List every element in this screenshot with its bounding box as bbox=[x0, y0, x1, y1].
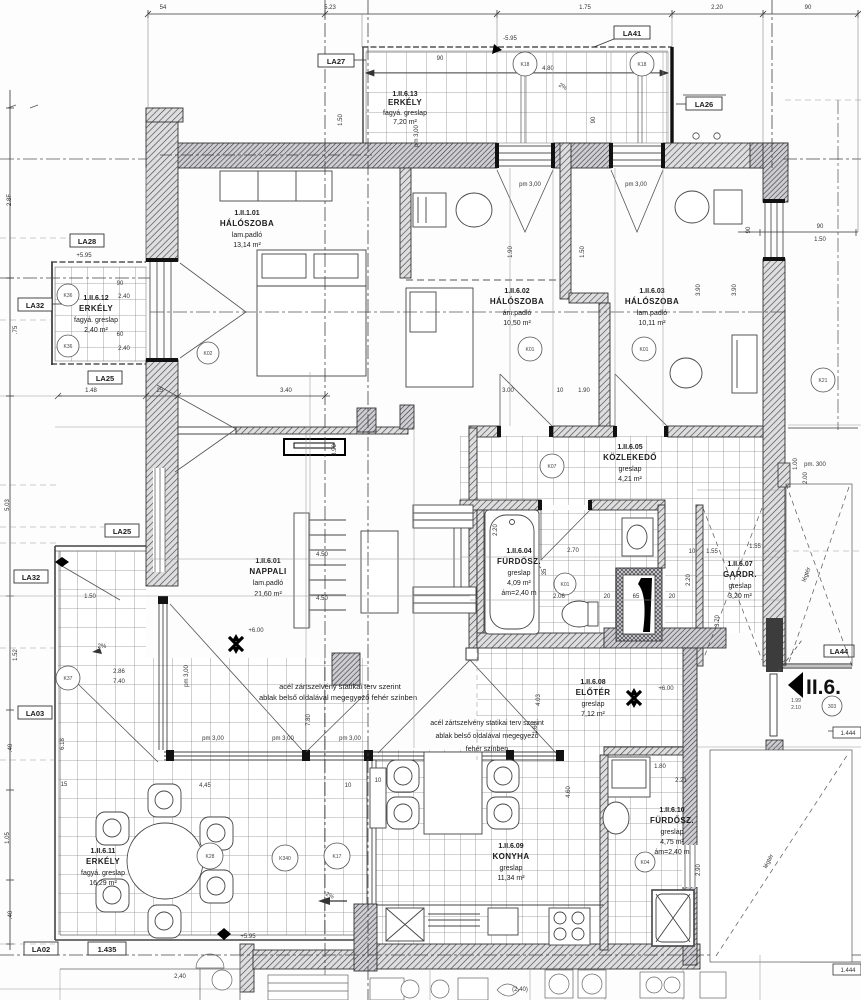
svg-text:LA32: LA32 bbox=[22, 573, 40, 582]
top-left wall tiny circles bbox=[693, 133, 699, 139]
bath10 west wall bbox=[600, 755, 608, 950]
svg-text:K01: K01 bbox=[526, 347, 535, 353]
svg-text:4,21 m²: 4,21 m² bbox=[618, 476, 642, 483]
svg-text:2.90: 2.90 bbox=[696, 864, 702, 876]
K circle bedroom3 bbox=[632, 337, 656, 361]
K circles erkely12 bbox=[57, 284, 79, 306]
svg-text:1.50: 1.50 bbox=[814, 237, 826, 243]
svg-text:FÜRDŐSZ.: FÜRDŐSZ. bbox=[650, 816, 694, 825]
dashed opening bedroom1/2 bbox=[406, 279, 560, 281]
svg-text:90: 90 bbox=[817, 224, 824, 230]
svg-text:pm. 300: pm. 300 bbox=[804, 462, 826, 468]
svg-text:1.60: 1.60 bbox=[533, 722, 539, 734]
svg-text:LA27: LA27 bbox=[327, 57, 345, 66]
svg-text:1.52: 1.52 bbox=[13, 649, 19, 661]
svg-text:1.II.6.09: 1.II.6.09 bbox=[498, 843, 523, 850]
kitchen shelves bbox=[428, 914, 480, 926]
door jamb posts bbox=[146, 143, 785, 510]
interior wall bedroom2/bedroom3 lower bbox=[599, 303, 610, 427]
bedroom1 door swing bbox=[157, 385, 236, 472]
svg-text:lam.padló: lam.padló bbox=[637, 310, 667, 317]
svg-text:K04: K04 bbox=[641, 860, 650, 866]
svg-text:NAPPALI: NAPPALI bbox=[249, 567, 286, 576]
svg-text:10,11 m²: 10,11 m² bbox=[638, 320, 666, 327]
svg-text:2,40 m²: 2,40 m² bbox=[84, 327, 108, 334]
window left wall (balcony door 12) bbox=[150, 261, 171, 360]
1.444 right edge top bbox=[828, 730, 861, 732]
bedroom1 bed bbox=[257, 250, 366, 376]
corridor door diag bbox=[484, 516, 541, 568]
corridor south wall bbox=[460, 500, 541, 510]
svg-text:1.90: 1.90 bbox=[578, 388, 590, 394]
bedroom3 chair2 bbox=[670, 358, 702, 388]
svg-text:1.75: 1.75 bbox=[579, 5, 591, 11]
svg-text:2.86: 2.86 bbox=[113, 669, 125, 675]
bathroom04 toilet bbox=[562, 601, 596, 627]
svg-text:LA25: LA25 bbox=[113, 527, 131, 536]
black diamond balcony top bbox=[55, 557, 69, 567]
nappali sideboard bbox=[284, 439, 345, 455]
svg-text:+6.00: +6.00 bbox=[248, 628, 264, 634]
K circle balcony-arm bbox=[56, 666, 80, 690]
svg-text:FÜRDŐSZ.: FÜRDŐSZ. bbox=[497, 557, 541, 566]
extension lines top bbox=[148, 14, 858, 232]
svg-text:pm 3,00: pm 3,00 bbox=[519, 182, 541, 188]
tiled floor: corridor KOZLEKEDO + GARDR bbox=[460, 436, 763, 505]
svg-text:LA02: LA02 bbox=[32, 945, 50, 954]
K circle bedroom2 bbox=[518, 337, 542, 361]
svg-text:2,40: 2,40 bbox=[174, 974, 186, 980]
K18 circle 2 bbox=[630, 52, 654, 76]
svg-text:2.40: 2.40 bbox=[118, 346, 130, 352]
svg-text:K01: K01 bbox=[640, 347, 649, 353]
svg-text:1.05: 1.05 bbox=[5, 832, 11, 844]
nappali sofa bbox=[361, 531, 398, 613]
exterior left wall upper bbox=[146, 108, 178, 261]
svg-text:ablak belső oldalával megegyez: ablak belső oldalával megegyező bbox=[435, 733, 538, 740]
tiled floor: bathroom 10 bbox=[608, 755, 683, 944]
legter lower shaft bbox=[710, 750, 852, 962]
dark junction kitchen east wall bbox=[597, 944, 611, 969]
nappali shelf-ladder bbox=[294, 513, 309, 628]
bedroom2 bed bbox=[406, 288, 473, 387]
svg-text:1.80: 1.80 bbox=[654, 764, 666, 770]
svg-text:4.03: 4.03 bbox=[536, 694, 542, 706]
svg-text:acél zártszelvény statikai ter: acél zártszelvény statikai terv szerint bbox=[430, 720, 544, 727]
pillar at nappali NE bbox=[357, 408, 376, 432]
svg-text:35: 35 bbox=[542, 568, 548, 575]
svg-text:ám.padló: ám.padló bbox=[503, 310, 532, 317]
nappali shelf east upper bbox=[413, 505, 473, 528]
svg-text:2.06: 2.06 bbox=[553, 594, 565, 600]
K circle bath04 bbox=[554, 573, 576, 595]
north-black marker top bbox=[492, 44, 502, 54]
K circle K21 right bbox=[811, 368, 835, 392]
tiled floor: left balcony ERKELY 12 bbox=[51, 262, 146, 365]
left wall lower window slit bbox=[153, 468, 165, 572]
svg-text:1.48: 1.48 bbox=[85, 388, 97, 394]
nappali east wall bbox=[469, 428, 477, 648]
svg-text:1.99: 1.99 bbox=[791, 698, 801, 704]
svg-text:65: 65 bbox=[633, 594, 640, 600]
exterior top wall (pier between windows) bbox=[553, 143, 611, 168]
svg-text:90: 90 bbox=[591, 116, 597, 123]
svg-text:K02: K02 bbox=[204, 351, 213, 357]
bath10 north wall bbox=[604, 747, 697, 755]
1.444 right edge bottom bbox=[800, 961, 861, 963]
svg-text:.75: .75 bbox=[13, 325, 19, 334]
svg-text:4.80: 4.80 bbox=[542, 66, 554, 72]
svg-text:2.70: 2.70 bbox=[567, 548, 579, 554]
svg-text:greslap: greslap bbox=[729, 583, 752, 590]
kitchen window swing bbox=[378, 660, 556, 753]
svg-text:1.II.6.07: 1.II.6.07 bbox=[727, 561, 752, 568]
window right wall bbox=[765, 202, 783, 259]
nappali south-east pillar bbox=[332, 653, 360, 685]
svg-text:1.II.6.12: 1.II.6.12 bbox=[83, 295, 108, 302]
kitchen west glass wall bbox=[367, 760, 376, 904]
svg-text:7.80: 7.80 bbox=[306, 714, 312, 726]
svg-text:ERKÉLY: ERKÉLY bbox=[388, 98, 422, 107]
svg-text:acél zártszelvény statikai ter: acél zártszelvény statikai terv szerint bbox=[279, 682, 402, 691]
tiled floor: ELOTER bbox=[477, 648, 683, 750]
svg-text:5.23: 5.23 bbox=[324, 5, 336, 11]
shaft bath04 cross-hatched with black wedge bbox=[616, 568, 662, 641]
svg-text:+5.95: +5.95 bbox=[76, 253, 92, 259]
bedroom3 desk2 bbox=[732, 335, 757, 393]
svg-text:3.40: 3.40 bbox=[280, 388, 292, 394]
svg-text:10: 10 bbox=[557, 388, 564, 394]
svg-text:pm 3,00: pm 3,00 bbox=[202, 736, 224, 742]
svg-text:3,20 m²: 3,20 m² bbox=[728, 593, 752, 600]
bottom small tables bbox=[196, 954, 232, 990]
svg-text:LA25: LA25 bbox=[96, 374, 114, 383]
svg-text:1.55: 1.55 bbox=[749, 544, 761, 550]
svg-text:K37: K37 bbox=[64, 676, 73, 682]
svg-text:2.00: 2.00 bbox=[803, 472, 809, 484]
svg-text:16,29 m²: 16,29 m² bbox=[89, 880, 117, 887]
bedroom3 chair bbox=[675, 191, 709, 223]
svg-text:5.03: 5.03 bbox=[5, 499, 11, 511]
svg-text:K18: K18 bbox=[638, 62, 647, 68]
svg-text:K07: K07 bbox=[548, 464, 557, 470]
svg-text:4.50: 4.50 bbox=[316, 552, 328, 558]
kitchen SW corner block bbox=[354, 904, 377, 971]
svg-text:II.6.: II.6. bbox=[806, 676, 841, 699]
svg-text:2.8F: 2.8F bbox=[7, 194, 13, 206]
bath10 shower bbox=[652, 890, 694, 946]
svg-text:lam.padló: lam.padló bbox=[232, 232, 262, 239]
svg-text:1.II.6.03: 1.II.6.03 bbox=[639, 288, 664, 295]
svg-text:2.21: 2.21 bbox=[675, 778, 687, 784]
svg-text:11,34 m²: 11,34 m² bbox=[497, 875, 525, 882]
svg-text:54: 54 bbox=[160, 5, 167, 11]
1.435 box bottom bbox=[88, 942, 126, 955]
east wall window break bbox=[682, 845, 698, 887]
bedroom3 door swing bbox=[615, 374, 668, 427]
LA32 label mid bbox=[14, 570, 48, 583]
svg-text:7.40: 7.40 bbox=[113, 679, 125, 685]
svg-text:pm 3,00: pm 3,00 bbox=[625, 182, 647, 188]
gardrobe west wall bbox=[696, 505, 703, 666]
exterior right wall upper corner bbox=[763, 143, 788, 202]
svg-text:LA41: LA41 bbox=[623, 29, 641, 38]
svg-text:-5.95: -5.95 bbox=[503, 36, 517, 42]
svg-text:3.70: 3.70 bbox=[715, 615, 721, 627]
svg-text:fagyá. greslap: fagyá. greslap bbox=[74, 317, 118, 324]
glass wall posts bbox=[158, 596, 564, 761]
bottom exterior wall (east run) bbox=[377, 944, 700, 969]
svg-text:1.II.1.01: 1.II.1.01 bbox=[234, 210, 259, 217]
bedrooms 2-3 south wall segments bbox=[469, 426, 500, 437]
black diamond balcony bottom bbox=[217, 928, 231, 940]
svg-text:K28: K28 bbox=[206, 854, 215, 860]
svg-text:greslap: greslap bbox=[582, 701, 605, 708]
svg-text:1.II.6.02: 1.II.6.02 bbox=[504, 288, 529, 295]
bedroom1 window dim arrows left bbox=[58, 395, 62, 397]
exterior top wall (segment west) bbox=[170, 143, 497, 168]
svg-text:20: 20 bbox=[604, 594, 611, 600]
bath04 west wall bbox=[477, 510, 484, 633]
svg-text:(2,40): (2,40) bbox=[512, 987, 528, 993]
svg-text:HÁLÓSZOBA: HÁLÓSZOBA bbox=[625, 297, 679, 306]
top dimension line bbox=[145, 10, 861, 18]
nappali window swings bbox=[170, 604, 364, 752]
II.6. sheet marker bbox=[788, 672, 803, 698]
svg-text:3.90: 3.90 bbox=[696, 284, 702, 296]
legter top stub wall bbox=[778, 463, 790, 487]
svg-text:K01: K01 bbox=[561, 582, 570, 588]
bedroom2 chair bbox=[456, 193, 492, 227]
bath04 east wall bbox=[658, 505, 665, 568]
bedroom2 door swing bbox=[500, 374, 553, 427]
kitchen stove bbox=[549, 908, 590, 945]
bedroom1 south boundary thin band bbox=[178, 427, 236, 434]
LA41 label bbox=[594, 26, 650, 47]
right margin dims bbox=[738, 229, 858, 428]
svg-text:303: 303 bbox=[828, 704, 837, 710]
legter upper shaft bbox=[786, 484, 852, 666]
svg-text:1.II.6.10: 1.II.6.10 bbox=[659, 807, 684, 814]
balcony13 annotations bbox=[366, 70, 668, 76]
svg-text:10: 10 bbox=[345, 783, 352, 789]
bathroom04 tub bbox=[485, 510, 539, 634]
svg-text:K17: K17 bbox=[333, 854, 342, 860]
nappali west glass wall bbox=[159, 600, 167, 750]
bottom exterior wall left step bbox=[240, 944, 254, 992]
svg-text:2.20: 2.20 bbox=[686, 574, 692, 586]
svg-text:6.18: 6.18 bbox=[60, 738, 66, 750]
svg-text:ELŐTÉR: ELŐTÉR bbox=[576, 688, 611, 697]
svg-text:60: 60 bbox=[117, 332, 124, 338]
svg-text:HÁLÓSZOBA: HÁLÓSZOBA bbox=[220, 219, 274, 228]
bathroom04 washbasin bbox=[622, 518, 653, 556]
svg-text:LA28: LA28 bbox=[78, 237, 96, 246]
svg-text:greslap: greslap bbox=[508, 570, 531, 577]
tiled floor: bathroom 04 bbox=[484, 510, 658, 633]
svg-text:.40: .40 bbox=[8, 743, 14, 752]
LA03 label bbox=[18, 706, 52, 719]
svg-text:3.90: 3.90 bbox=[732, 284, 738, 296]
kitchen sink-island bbox=[370, 768, 386, 828]
svg-text:K18: K18 bbox=[521, 62, 530, 68]
door swing diagonals: top windows into bedrooms bbox=[62, 170, 668, 762]
svg-text:K21: K21 bbox=[819, 378, 828, 384]
shaft bath10 black wedge bbox=[717, 912, 752, 952]
nappali south glass wall bbox=[159, 600, 562, 904]
balcony11 round table bbox=[127, 823, 203, 899]
dimension row y393 bbox=[55, 393, 330, 399]
tiled floor: top balcony ERKELY 13 bbox=[362, 47, 672, 143]
interior wall bedroom2/bedroom3 jog bbox=[569, 293, 608, 303]
bedroom3 desk bbox=[714, 190, 742, 224]
svg-text:1.II.6.08: 1.II.6.08 bbox=[580, 679, 605, 686]
gardrobe dashed diagonal bbox=[703, 508, 762, 660]
svg-text:90: 90 bbox=[805, 5, 812, 11]
svg-text:1.90: 1.90 bbox=[508, 246, 514, 258]
tiled floor: big balcony ERKELY 11 (arm + wide part) bbox=[55, 546, 497, 940]
svg-text:10: 10 bbox=[689, 549, 696, 555]
svg-text:1.II.6.11: 1.II.6.11 bbox=[91, 848, 116, 855]
svg-text:GARDR.: GARDR. bbox=[723, 570, 757, 579]
K circle bedroom1 bbox=[197, 342, 219, 364]
svg-text:K340: K340 bbox=[279, 856, 291, 862]
svg-text:25: 25 bbox=[157, 388, 164, 394]
kitchen fridge bbox=[608, 757, 650, 797]
svg-text:pm 3,00: pm 3,00 bbox=[414, 125, 420, 147]
svg-text:3.00: 3.00 bbox=[502, 388, 514, 394]
svg-text:2.20: 2.20 bbox=[493, 524, 499, 536]
svg-text:ám=2,40 m: ám=2,40 m bbox=[654, 849, 689, 856]
svg-text:1.00: 1.00 bbox=[793, 458, 799, 470]
svg-text:ERKÉLY: ERKÉLY bbox=[79, 304, 113, 313]
svg-text:ERKÉLY: ERKÉLY bbox=[86, 857, 120, 866]
svg-text:greslap: greslap bbox=[661, 829, 684, 836]
exterior top wall (segment east) bbox=[663, 143, 788, 168]
svg-text:7,12 m²: 7,12 m² bbox=[581, 711, 605, 718]
svg-text:greslap: greslap bbox=[619, 466, 642, 473]
svg-text:20: 20 bbox=[669, 594, 676, 600]
tiled floor: KONYHA bbox=[376, 750, 604, 944]
window top wall east bbox=[611, 146, 663, 166]
svg-text:K36: K36 bbox=[64, 293, 73, 299]
LA28 label bbox=[70, 234, 104, 247]
svg-text:LA03: LA03 bbox=[26, 709, 44, 718]
LA26 label bbox=[686, 97, 722, 110]
bottom exterior wall (west run) bbox=[253, 950, 360, 969]
svg-text:7,20 m²: 7,20 m² bbox=[393, 119, 417, 126]
balcony11 chairs bbox=[96, 784, 233, 938]
balcony west window swing bbox=[78, 684, 158, 762]
svg-text:ám=2,40 m: ám=2,40 m bbox=[501, 590, 536, 597]
svg-text:90: 90 bbox=[746, 226, 752, 233]
svg-text:+6.00: +6.00 bbox=[658, 686, 674, 692]
svg-text:21,60 m²: 21,60 m² bbox=[254, 591, 282, 598]
exterior left wall top cap bbox=[146, 108, 183, 122]
svg-text:1.55: 1.55 bbox=[706, 549, 718, 555]
bottom strip: lower unit hints bbox=[60, 969, 726, 1000]
svg-text:LA32: LA32 bbox=[26, 301, 44, 310]
svg-text:lam.padló: lam.padló bbox=[253, 580, 283, 587]
svg-text:2.20: 2.20 bbox=[711, 5, 723, 11]
svg-text:4,45: 4,45 bbox=[199, 783, 211, 789]
svg-text:LA44: LA44 bbox=[830, 647, 849, 656]
svg-text:1.50: 1.50 bbox=[580, 246, 586, 258]
LA27 label bbox=[318, 54, 354, 67]
svg-text:pm 3,00: pm 3,00 bbox=[339, 736, 361, 742]
svg-text:+5.95: +5.95 bbox=[240, 934, 256, 940]
svg-text:1.444: 1.444 bbox=[840, 731, 856, 737]
door swing left window into bedroom1 bbox=[180, 263, 246, 358]
K circle bath10 bbox=[635, 852, 655, 872]
svg-text:HÁLÓSZOBA: HÁLÓSZOBA bbox=[490, 297, 544, 306]
svg-text:10,50 m²: 10,50 m² bbox=[503, 320, 531, 327]
svg-text:4.60: 4.60 bbox=[566, 786, 572, 798]
post at eloter/nappali corner bbox=[466, 648, 478, 660]
exterior left wall lower bbox=[146, 360, 178, 586]
LA25 label mid bbox=[105, 524, 139, 537]
svg-text:4,75 m²: 4,75 m² bbox=[660, 839, 684, 846]
svg-text:1.444: 1.444 bbox=[840, 968, 856, 974]
svg-text:fehér színben: fehér színben bbox=[466, 746, 509, 753]
interior wall bedroom2/bedroom3 upper bbox=[560, 143, 571, 299]
svg-text:1.II.6.05: 1.II.6.05 bbox=[617, 444, 642, 451]
svg-text:KONYHA: KONYHA bbox=[492, 852, 529, 861]
bath10 sink bbox=[612, 760, 646, 788]
LA25 label lower bbox=[88, 371, 122, 384]
exterior right wall main bbox=[763, 259, 785, 666]
LA02 label bottom bbox=[24, 942, 58, 955]
kitchen chairs bbox=[387, 760, 519, 829]
svg-text:2.10: 2.10 bbox=[791, 705, 801, 711]
svg-text:90: 90 bbox=[117, 281, 124, 287]
bedroom1 closet bbox=[220, 171, 332, 201]
svg-text:1.II.6.04: 1.II.6.04 bbox=[506, 548, 531, 555]
svg-text:pm 3,00: pm 3,00 bbox=[272, 736, 294, 742]
bedroom2 desk bbox=[413, 193, 446, 227]
light construction lines margins bbox=[0, 100, 861, 760]
LA44 label bbox=[824, 645, 854, 657]
left margin dimension line bbox=[6, 90, 14, 950]
LA32 label bbox=[18, 298, 52, 311]
svg-text:fagyá. greslap: fagyá. greslap bbox=[383, 110, 427, 117]
K18 circle 1 bbox=[513, 52, 537, 76]
svg-text:1.435: 1.435 bbox=[98, 945, 117, 954]
svg-text:greslap: greslap bbox=[500, 865, 523, 872]
lobby south wall double line bbox=[782, 664, 852, 668]
bath10 toilet bbox=[603, 802, 629, 834]
kitchen counter run bbox=[376, 904, 604, 906]
svg-text:10: 10 bbox=[375, 778, 382, 784]
svg-text:KÖZLEKEDŐ: KÖZLEKEDŐ bbox=[603, 453, 657, 462]
svg-text:4.50: 4.50 bbox=[316, 596, 328, 602]
svg-text:2.40: 2.40 bbox=[118, 294, 130, 300]
right wall dark end blocks bbox=[766, 618, 783, 672]
svg-text:pm 3,00: pm 3,00 bbox=[184, 665, 190, 687]
svg-text:1.50: 1.50 bbox=[338, 114, 344, 126]
svg-text:ablak belső oldalával megegyez: ablak belső oldalával megegyező fehér sz… bbox=[259, 693, 417, 702]
svg-text:4,09 m²: 4,09 m² bbox=[507, 580, 531, 587]
kitchen X cabinet bbox=[386, 908, 424, 941]
eloter north heavy wall bbox=[477, 633, 604, 648]
svg-text:K36: K36 bbox=[64, 344, 73, 350]
svg-text:LA26: LA26 bbox=[695, 100, 713, 109]
svg-text:fagyá. greslap: fagyá. greslap bbox=[81, 870, 125, 877]
svg-text:13,14 m²: 13,14 m² bbox=[233, 242, 261, 249]
interior wall bedroom1/bedroom2 bbox=[400, 168, 411, 278]
svg-text:.40: .40 bbox=[8, 910, 14, 919]
svg-text:15: 15 bbox=[61, 782, 68, 788]
